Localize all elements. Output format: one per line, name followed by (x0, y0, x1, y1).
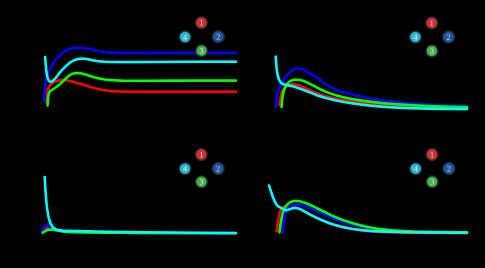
legend marker 2 of bottom-left subplot (212, 163, 224, 175)
curve 4 (cyan) of top-left subplot (45, 57, 236, 82)
svg-text:3: 3 (200, 47, 204, 56)
legend marker 4 of top-right subplot (410, 31, 422, 43)
legend marker 3 of top-left subplot (196, 45, 208, 57)
curve 1 (red) of bottom-left subplot (44, 227, 236, 233)
svg-text:2: 2 (447, 164, 451, 173)
svg-text:3: 3 (430, 47, 434, 56)
legend marker 2 of bottom-right subplot (443, 163, 455, 175)
curve 1 (red) of top-left subplot (47, 80, 236, 102)
svg-text:4: 4 (183, 33, 187, 42)
svg-text:2: 2 (216, 164, 220, 173)
legend marker 1 of top-right subplot (426, 17, 438, 29)
curve 1 (red) of bottom-right subplot (277, 206, 467, 233)
curve 3 (green) of top-right subplot (282, 80, 467, 107)
legend marker 4 of bottom-left subplot (179, 163, 191, 175)
curve 2 (blue) of bottom-right subplot (283, 205, 467, 233)
svg-text:1: 1 (430, 150, 434, 159)
legend marker 4 of bottom-right subplot (410, 163, 422, 175)
curve 3 (green) of bottom-left subplot (43, 230, 236, 234)
svg-text:4: 4 (413, 33, 417, 42)
curve 3 (green) of top-left subplot (48, 73, 237, 106)
svg-text:1: 1 (430, 19, 434, 28)
curve 4 (cyan) of top-right subplot (276, 57, 467, 110)
svg-text:4: 4 (183, 165, 187, 174)
curve 3 (green) of bottom-right subplot (280, 201, 468, 232)
curve 2 (blue) of top-left subplot (44, 48, 236, 101)
legend marker 3 of bottom-right subplot (426, 176, 438, 188)
curve 1 (red) of top-right subplot (280, 84, 467, 108)
curve 4 (cyan) of bottom-right subplot (269, 186, 467, 233)
svg-text:1: 1 (199, 150, 203, 159)
svg-text:3: 3 (430, 178, 434, 187)
legend marker 3 of top-right subplot (426, 45, 438, 57)
legend marker 4 of top-left subplot (179, 31, 191, 43)
curve 2 (blue) of top-right subplot (276, 68, 467, 107)
legend marker 1 of top-left subplot (196, 17, 208, 29)
svg-text:2: 2 (216, 33, 220, 42)
legend marker 1 of bottom-right subplot (426, 149, 438, 161)
svg-text:4: 4 (414, 165, 418, 174)
curve 2 (blue) of bottom-left subplot (42, 225, 236, 233)
svg-text:1: 1 (199, 19, 203, 28)
legend marker 2 of top-left subplot (212, 31, 224, 43)
svg-text:3: 3 (199, 178, 203, 187)
curve 4 (cyan) of bottom-left subplot (45, 177, 236, 233)
legend marker 2 of top-right subplot (443, 31, 455, 43)
legend marker 3 of bottom-left subplot (196, 176, 208, 188)
legend marker 1 of bottom-left subplot (195, 149, 207, 161)
svg-text:2: 2 (447, 33, 451, 42)
